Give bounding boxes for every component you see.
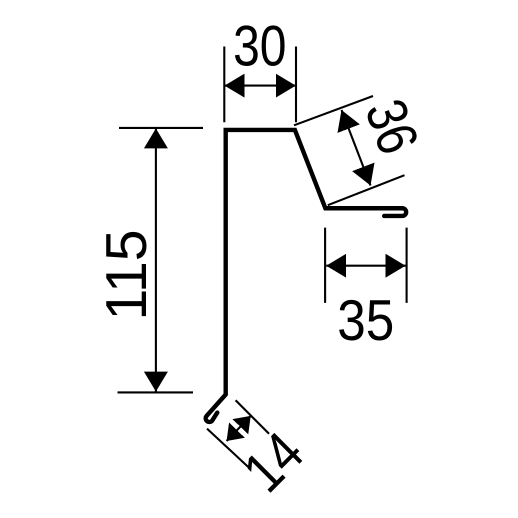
- dim 36: extension line upper: [294, 96, 373, 125]
- dim 14: extension line lower: [207, 429, 250, 469]
- dim 14: extension line upper: [236, 400, 269, 434]
- dim 115: dimension line with arrows: [155, 128, 157, 391]
- dim 115: extension line bottom: [118, 391, 194, 393]
- dim 115: extension line top: [119, 127, 203, 129]
- dim 30: extension line left: [223, 47, 225, 123]
- dim 14: dimension line with arrows: [227, 416, 251, 441]
- dim 36: dimension line with arrows: [342, 110, 371, 186]
- dim 30: dimension line with arrows: [225, 85, 296, 87]
- svg-text:35: 35: [337, 289, 394, 353]
- dim 35: extension line right: [406, 228, 408, 303]
- dim 35: extension line left: [324, 228, 326, 303]
- profile outline (sheet-metal cross-section): [206, 130, 406, 422]
- svg-text:30: 30: [233, 14, 286, 78]
- dim 35: dimension line with arrows: [326, 265, 405, 267]
- dim 30: extension line right: [295, 47, 297, 123]
- svg-text:36: 36: [352, 91, 430, 162]
- svg-text:115: 115: [95, 230, 159, 321]
- dim 36: extension line lower: [328, 175, 405, 205]
- svg-text:14: 14: [232, 420, 316, 504]
